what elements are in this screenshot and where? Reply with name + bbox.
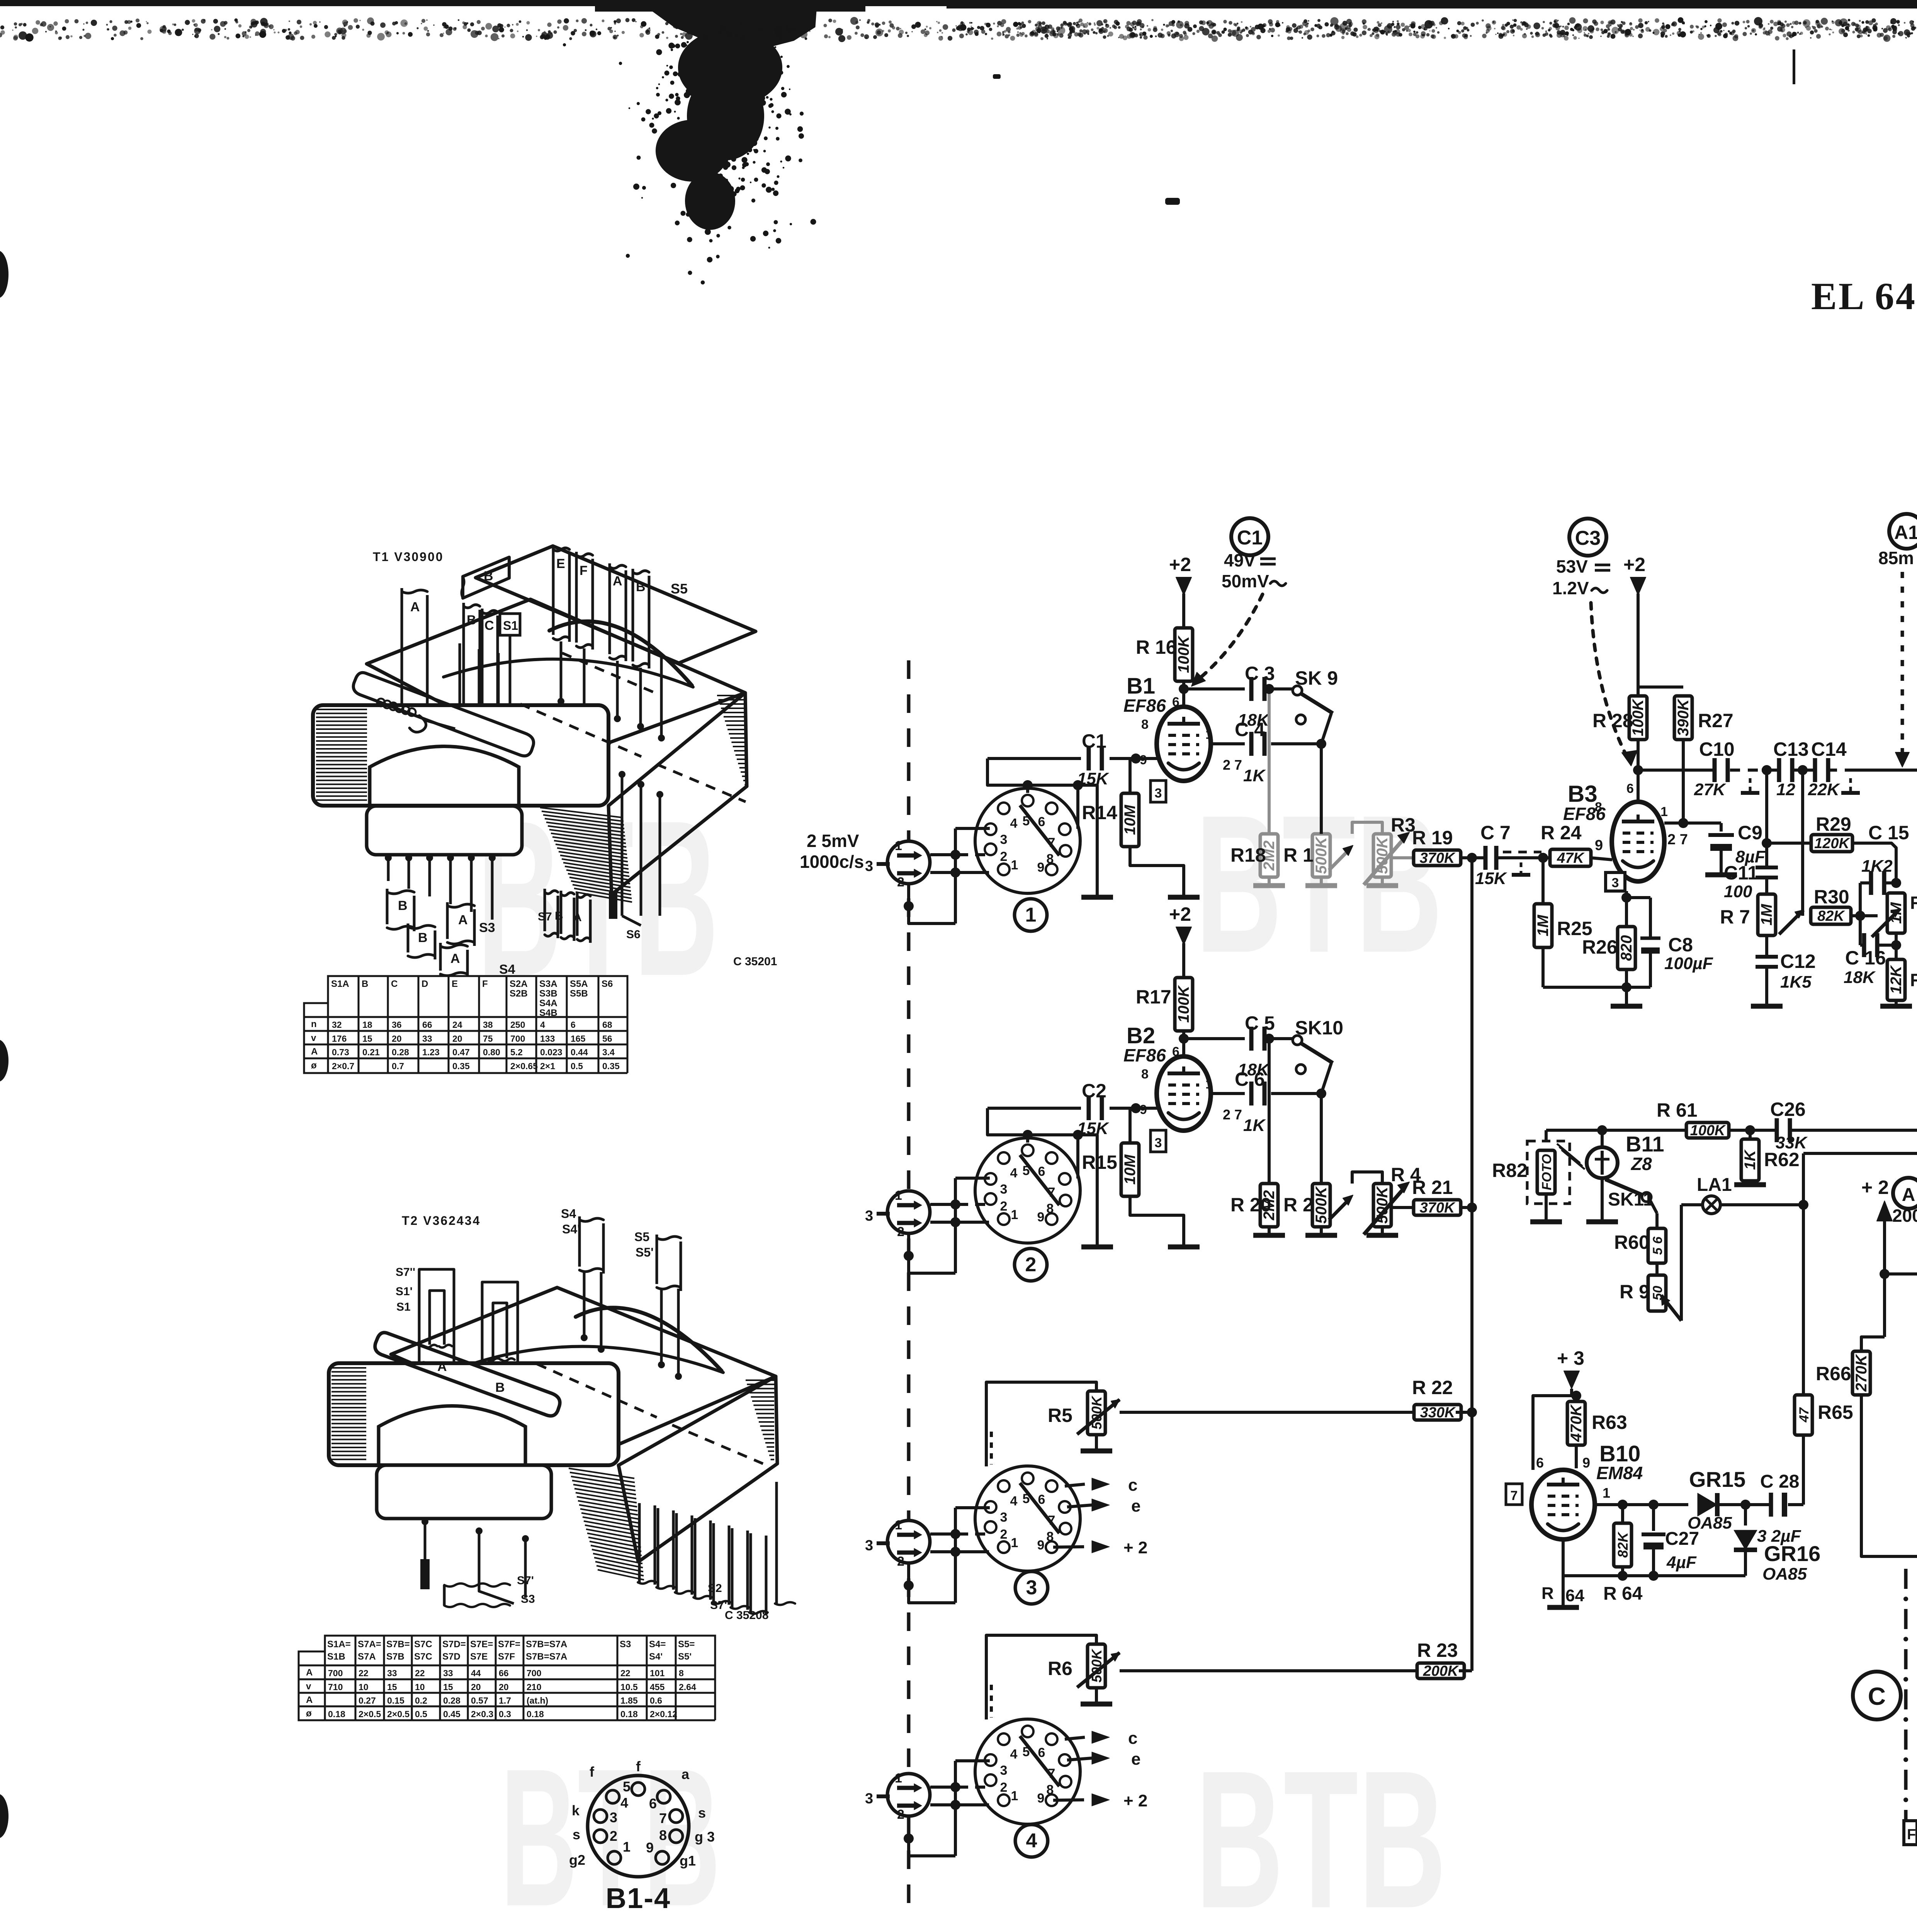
svg-text:S7D=: S7D= <box>442 1639 466 1650</box>
svg-text:2.64: 2.64 <box>679 1682 696 1692</box>
svg-text:2×0.7: 2×0.7 <box>332 1061 354 1071</box>
svg-text:R 61: R 61 <box>1657 1099 1698 1121</box>
svg-text:8: 8 <box>679 1668 684 1678</box>
svg-text:B2: B2 <box>1127 1023 1155 1048</box>
svg-text:6: 6 <box>1172 1044 1179 1059</box>
svg-text:R 19: R 19 <box>1412 827 1453 849</box>
svg-text:S3: S3 <box>620 1639 631 1650</box>
svg-text:1K: 1K <box>1243 1116 1266 1135</box>
svg-text:B: B <box>418 930 428 945</box>
svg-text:0.21: 0.21 <box>362 1047 380 1057</box>
svg-text:20: 20 <box>499 1682 509 1692</box>
svg-text:1: 1 <box>1205 1077 1213 1092</box>
svg-text:+2: +2 <box>1623 554 1645 575</box>
svg-text:22: 22 <box>415 1668 425 1678</box>
svg-text:270K: 270K <box>1853 1354 1870 1392</box>
svg-text:82K: 82K <box>1615 1531 1631 1558</box>
svg-text:100K: 100K <box>1175 985 1192 1023</box>
svg-text:C8: C8 <box>1668 934 1693 956</box>
svg-text:15K: 15K <box>1475 869 1507 888</box>
svg-text:A: A <box>613 574 622 588</box>
svg-text:C3: C3 <box>1575 527 1601 549</box>
svg-text:200: 200 <box>1892 1206 1917 1226</box>
svg-text:700: 700 <box>328 1668 343 1678</box>
svg-text:v: v <box>311 1033 316 1043</box>
svg-text:+2: +2 <box>1169 903 1191 925</box>
svg-text:250: 250 <box>510 1020 525 1030</box>
svg-text:66: 66 <box>499 1668 509 1678</box>
svg-text:3: 3 <box>1026 1577 1037 1599</box>
svg-text:R 7: R 7 <box>1720 906 1750 928</box>
svg-text:10: 10 <box>415 1682 425 1692</box>
svg-text:S5': S5' <box>636 1245 654 1259</box>
svg-text:C1: C1 <box>1237 527 1263 549</box>
svg-text:20: 20 <box>452 1034 462 1044</box>
svg-text:1K: 1K <box>1243 766 1266 785</box>
svg-text:0.35: 0.35 <box>602 1061 620 1071</box>
svg-text:D: D <box>421 979 428 989</box>
svg-text:A: A <box>410 600 420 614</box>
svg-text:0.28: 0.28 <box>392 1047 409 1057</box>
svg-text:ø: ø <box>306 1708 312 1719</box>
svg-text:S7B=S7A: S7B=S7A <box>526 1651 567 1662</box>
svg-text:3: 3 <box>610 1810 617 1825</box>
svg-text:B: B <box>467 613 476 628</box>
svg-text:49V: 49V <box>1224 550 1256 570</box>
svg-text:2: 2 <box>897 875 904 889</box>
svg-text:+2: +2 <box>1169 554 1191 575</box>
svg-text:S7: S7 <box>538 910 552 923</box>
svg-text:9: 9 <box>1140 753 1147 767</box>
svg-text:A: A <box>311 1046 318 1057</box>
svg-text:S7': S7' <box>517 1574 534 1587</box>
svg-text:S4': S4' <box>649 1651 663 1662</box>
svg-text:A: A <box>306 1667 313 1678</box>
svg-text:R27: R27 <box>1698 710 1733 731</box>
svg-text:7: 7 <box>1511 1488 1518 1503</box>
svg-text:SK11: SK11 <box>1608 1189 1653 1210</box>
svg-text:500K: 500K <box>1313 836 1330 874</box>
svg-text:f: f <box>590 1764 595 1780</box>
svg-text:2 7: 2 7 <box>1667 832 1688 848</box>
svg-text:A: A <box>437 1359 447 1374</box>
svg-text:33: 33 <box>443 1668 453 1678</box>
svg-text:R14: R14 <box>1082 802 1117 823</box>
svg-text:0.44: 0.44 <box>571 1047 588 1057</box>
svg-text:C: C <box>484 618 494 633</box>
svg-text:GR16: GR16 <box>1764 1541 1820 1566</box>
svg-text:R30: R30 <box>1814 886 1849 908</box>
svg-text:700: 700 <box>527 1668 541 1678</box>
svg-text:B: B <box>484 569 493 583</box>
svg-text:370K: 370K <box>1420 1200 1456 1216</box>
svg-text:3: 3 <box>1612 876 1619 890</box>
svg-text:S7B=: S7B= <box>386 1639 410 1650</box>
svg-text:S4=: S4= <box>649 1639 666 1650</box>
svg-text:3: 3 <box>1155 786 1162 801</box>
svg-text:0.80: 0.80 <box>483 1047 500 1057</box>
svg-text:15: 15 <box>387 1682 397 1692</box>
svg-text:R 1: R 1 <box>1283 844 1314 866</box>
svg-text:3: 3 <box>1000 1182 1008 1197</box>
svg-text:6: 6 <box>571 1020 576 1030</box>
svg-text:LA1: LA1 <box>1697 1175 1732 1195</box>
svg-text:S4': S4' <box>562 1222 580 1236</box>
svg-text:8: 8 <box>659 1827 667 1843</box>
svg-text:47K: 47K <box>1557 850 1585 866</box>
svg-text:R 9: R 9 <box>1620 1281 1650 1303</box>
svg-text:S7C: S7C <box>414 1639 432 1650</box>
svg-text:85m: 85m <box>1878 548 1914 568</box>
svg-text:A: A <box>1902 1185 1915 1205</box>
svg-text:A1: A1 <box>1894 522 1917 543</box>
svg-text:c: c <box>1128 1729 1137 1748</box>
svg-text:200K: 200K <box>1423 1663 1459 1679</box>
svg-text:Z8: Z8 <box>1630 1154 1652 1174</box>
svg-text:470K: 470K <box>1568 1404 1585 1442</box>
svg-text:4: 4 <box>620 1795 628 1811</box>
svg-text:1.2V: 1.2V <box>1552 578 1589 598</box>
svg-text:2×0.5: 2×0.5 <box>359 1709 381 1719</box>
svg-text:1: 1 <box>1603 1485 1610 1501</box>
svg-text:S3A: S3A <box>539 979 557 989</box>
svg-text:0.7: 0.7 <box>392 1061 404 1071</box>
svg-text:(at.h): (at.h) <box>527 1696 548 1706</box>
svg-text:A: A <box>573 911 582 924</box>
svg-text:2×0.12: 2×0.12 <box>650 1709 677 1719</box>
svg-text:s: s <box>698 1805 706 1821</box>
svg-text:9: 9 <box>1140 1102 1147 1117</box>
svg-text:22K: 22K <box>1808 780 1841 799</box>
svg-text:75: 75 <box>483 1034 493 1044</box>
svg-text:53V: 53V <box>1556 556 1588 577</box>
svg-text:22: 22 <box>359 1668 369 1678</box>
svg-text:C13: C13 <box>1773 738 1809 760</box>
svg-text:C 15: C 15 <box>1868 822 1909 844</box>
svg-text:E: E <box>556 556 565 571</box>
svg-text:C 3: C 3 <box>1245 663 1275 684</box>
svg-text:5 6: 5 6 <box>1650 1236 1665 1255</box>
svg-text:S7E: S7E <box>470 1651 488 1662</box>
svg-text:1.23: 1.23 <box>422 1047 440 1057</box>
svg-text:C 35208: C 35208 <box>725 1609 768 1622</box>
svg-text:S1B: S1B <box>327 1651 345 1662</box>
svg-text:100K: 100K <box>1175 635 1192 673</box>
svg-text:1K: 1K <box>1742 1149 1759 1170</box>
svg-text:4: 4 <box>1010 816 1018 831</box>
svg-text:455: 455 <box>650 1682 665 1692</box>
svg-text:15: 15 <box>362 1034 372 1044</box>
svg-text:B: B <box>555 910 563 922</box>
svg-text:5.2: 5.2 <box>510 1047 523 1057</box>
svg-text:0.28: 0.28 <box>443 1696 461 1706</box>
svg-text:0.18: 0.18 <box>527 1709 544 1719</box>
svg-text:F: F <box>482 979 488 989</box>
svg-text:47: 47 <box>1797 1407 1812 1423</box>
svg-text:R 22: R 22 <box>1412 1377 1453 1398</box>
svg-text:C: C <box>391 979 398 989</box>
svg-text:C 5: C 5 <box>1245 1012 1275 1034</box>
svg-text:+ 3: + 3 <box>1557 1347 1584 1369</box>
svg-text:210: 210 <box>527 1682 541 1692</box>
svg-text:R60: R60 <box>1614 1231 1650 1253</box>
svg-text:R29: R29 <box>1816 813 1851 835</box>
svg-text:2: 2 <box>897 1225 904 1239</box>
svg-text:g1: g1 <box>680 1853 696 1869</box>
svg-text:B: B <box>495 1380 505 1395</box>
svg-text:4: 4 <box>1010 1166 1018 1180</box>
svg-text:820: 820 <box>1618 935 1635 961</box>
svg-text:20: 20 <box>392 1034 402 1044</box>
svg-text:5: 5 <box>623 1779 631 1794</box>
svg-text:C 7: C 7 <box>1480 822 1511 844</box>
svg-text:8: 8 <box>1141 1067 1149 1082</box>
svg-text:2 7: 2 7 <box>1223 1107 1242 1122</box>
svg-text:6: 6 <box>1172 695 1179 709</box>
svg-text:S1A: S1A <box>331 979 349 989</box>
svg-text:133: 133 <box>540 1034 555 1044</box>
svg-text:9: 9 <box>1582 1455 1590 1471</box>
svg-text:27K: 27K <box>1694 780 1727 799</box>
svg-text:S1: S1 <box>503 619 518 633</box>
svg-text:C 4: C 4 <box>1235 719 1265 740</box>
svg-text:82K: 82K <box>1817 908 1845 924</box>
svg-text:3.4: 3.4 <box>602 1047 615 1057</box>
svg-text:101: 101 <box>650 1668 665 1678</box>
svg-text:FOTO: FOTO <box>1540 1154 1554 1190</box>
svg-text:38: 38 <box>483 1020 493 1030</box>
svg-text:T2 V362434: T2 V362434 <box>402 1214 481 1228</box>
svg-text:22: 22 <box>620 1668 631 1678</box>
svg-text:R18: R18 <box>1230 844 1266 866</box>
svg-text:0.3: 0.3 <box>499 1709 511 1719</box>
svg-text:B: B <box>398 898 408 913</box>
svg-text:9: 9 <box>1037 860 1045 875</box>
svg-text:a: a <box>681 1766 690 1782</box>
svg-text:1: 1 <box>895 838 902 853</box>
svg-text:1M: 1M <box>1535 914 1552 936</box>
svg-text:710: 710 <box>328 1682 343 1692</box>
svg-text:15K: 15K <box>1077 1119 1110 1138</box>
svg-text:S1A=: S1A= <box>327 1639 351 1650</box>
svg-text:3: 3 <box>865 1791 873 1807</box>
svg-text:6: 6 <box>1626 781 1634 796</box>
svg-text:R 23: R 23 <box>1417 1639 1458 1661</box>
svg-text:3: 3 <box>1000 1510 1008 1525</box>
svg-text:B1: B1 <box>1127 673 1155 699</box>
svg-text:2 5mV: 2 5mV <box>807 831 859 851</box>
svg-text:500K: 500K <box>1313 1185 1330 1224</box>
svg-text:S7A: S7A <box>358 1651 376 1662</box>
svg-text:33: 33 <box>422 1034 432 1044</box>
svg-text:R62: R62 <box>1764 1149 1800 1170</box>
svg-text:R66: R66 <box>1816 1363 1851 1384</box>
svg-text:32: 32 <box>332 1020 342 1030</box>
svg-text:15K: 15K <box>1077 769 1110 788</box>
svg-text:8: 8 <box>1047 1201 1054 1216</box>
svg-text:1: 1 <box>1011 1536 1018 1550</box>
svg-text:S7A=: S7A= <box>358 1639 381 1650</box>
svg-text:3: 3 <box>1000 1763 1008 1778</box>
svg-text:2: 2 <box>1000 1199 1008 1214</box>
svg-text:S7C: S7C <box>414 1651 432 1662</box>
svg-text:3: 3 <box>865 1537 873 1554</box>
svg-text:8: 8 <box>1141 717 1149 732</box>
svg-text:2×0.65: 2×0.65 <box>510 1061 538 1071</box>
svg-text:R17: R17 <box>1136 986 1171 1008</box>
svg-text:8: 8 <box>1047 1782 1054 1797</box>
svg-text:EL 64: EL 64 <box>1811 275 1917 318</box>
svg-text:0.2: 0.2 <box>415 1696 427 1706</box>
svg-text:+ 2: + 2 <box>1123 1538 1147 1557</box>
svg-text:2: 2 <box>1000 1527 1008 1542</box>
svg-text:A: A <box>458 913 468 927</box>
svg-text:S5: S5 <box>671 581 688 597</box>
svg-text:6: 6 <box>1536 1455 1544 1471</box>
svg-text:68: 68 <box>602 1020 612 1030</box>
svg-text:B1-4: B1-4 <box>606 1882 671 1914</box>
svg-text:C27: C27 <box>1665 1529 1699 1549</box>
svg-text:44: 44 <box>471 1668 481 1678</box>
svg-text:33: 33 <box>387 1668 397 1678</box>
svg-text:0.18: 0.18 <box>620 1709 638 1719</box>
svg-text:1: 1 <box>1025 904 1037 926</box>
svg-text:R63: R63 <box>1592 1412 1627 1433</box>
svg-text:3: 3 <box>1155 1136 1162 1150</box>
svg-text:9: 9 <box>646 1840 654 1855</box>
svg-text:e: e <box>1131 1750 1140 1769</box>
svg-text:9: 9 <box>1595 837 1603 854</box>
svg-text:10: 10 <box>359 1682 369 1692</box>
svg-text:F: F <box>1907 1827 1916 1843</box>
svg-text:0.57: 0.57 <box>471 1696 488 1706</box>
svg-text:S4: S4 <box>561 1207 576 1221</box>
svg-text:0.73: 0.73 <box>332 1047 349 1057</box>
svg-text:k: k <box>572 1803 580 1818</box>
svg-text:0.18: 0.18 <box>328 1709 345 1719</box>
svg-text:2×1: 2×1 <box>540 1061 555 1071</box>
svg-text:10M: 10M <box>1122 1154 1139 1184</box>
svg-text:S7B=S7A: S7B=S7A <box>526 1639 567 1650</box>
svg-text:20: 20 <box>471 1682 481 1692</box>
svg-text:4: 4 <box>1026 1830 1037 1852</box>
svg-text:n: n <box>311 1019 317 1029</box>
svg-text:B11: B11 <box>1626 1132 1664 1156</box>
svg-text:2×0.5: 2×0.5 <box>387 1709 410 1719</box>
svg-text:2: 2 <box>610 1828 617 1844</box>
svg-text:7: 7 <box>659 1810 667 1826</box>
svg-text:R: R <box>1541 1584 1554 1603</box>
svg-text:1: 1 <box>1660 804 1668 819</box>
svg-text:15: 15 <box>443 1682 453 1692</box>
svg-text:C10: C10 <box>1699 738 1735 760</box>
svg-text:R82: R82 <box>1492 1160 1528 1181</box>
svg-text:R6: R6 <box>1048 1658 1072 1679</box>
svg-text:390K: 390K <box>1675 698 1692 736</box>
svg-text:SK 9: SK 9 <box>1295 667 1338 689</box>
svg-text:165: 165 <box>571 1034 586 1044</box>
svg-text:2: 2 <box>897 1807 904 1822</box>
svg-text:S2: S2 <box>708 1582 722 1595</box>
svg-text:B: B <box>362 979 368 989</box>
svg-text:S3: S3 <box>479 920 495 935</box>
svg-text:S7E=: S7E= <box>470 1639 493 1650</box>
svg-text:4: 4 <box>1010 1747 1018 1762</box>
svg-text:R 24: R 24 <box>1541 822 1582 844</box>
svg-text:4: 4 <box>1010 1494 1018 1509</box>
svg-text:F: F <box>580 563 588 578</box>
svg-text:1: 1 <box>1011 1789 1018 1803</box>
svg-text:3: 3 <box>1000 832 1008 847</box>
svg-text:B: B <box>636 580 646 594</box>
svg-text:64: 64 <box>1565 1586 1584 1605</box>
svg-text:700: 700 <box>510 1034 525 1044</box>
svg-text:EF86: EF86 <box>1123 696 1166 716</box>
svg-text:2: 2 <box>1025 1253 1037 1276</box>
svg-text:s: s <box>573 1827 580 1842</box>
svg-text:S7'': S7'' <box>396 1266 415 1279</box>
svg-text:B3: B3 <box>1568 781 1597 807</box>
svg-text:R 2: R 2 <box>1283 1194 1314 1216</box>
svg-text:g 3: g 3 <box>695 1829 715 1845</box>
svg-text:C1: C1 <box>1082 730 1106 752</box>
svg-text:2: 2 <box>1000 849 1008 864</box>
svg-text:R15: R15 <box>1082 1151 1117 1173</box>
svg-text:1: 1 <box>1205 727 1213 742</box>
svg-text:50mV: 50mV <box>1222 571 1269 591</box>
svg-text:66: 66 <box>422 1020 432 1030</box>
svg-text:36: 36 <box>392 1020 402 1030</box>
svg-text:100µF: 100µF <box>1664 954 1713 973</box>
svg-text:1.7: 1.7 <box>499 1696 511 1706</box>
svg-text:1: 1 <box>895 1518 902 1532</box>
svg-text:R 16: R 16 <box>1136 636 1177 658</box>
svg-text:1M: 1M <box>1758 903 1775 925</box>
svg-text:S1: S1 <box>396 1301 411 1313</box>
svg-text:8: 8 <box>1595 800 1602 815</box>
svg-text:0.15: 0.15 <box>387 1696 404 1706</box>
svg-text:100K: 100K <box>1690 1122 1726 1139</box>
svg-text:C 6: C 6 <box>1235 1068 1265 1090</box>
svg-text:370K: 370K <box>1420 850 1456 866</box>
svg-text:4µF: 4µF <box>1666 1553 1697 1572</box>
svg-text:S2A: S2A <box>510 979 528 989</box>
svg-text:2: 2 <box>1000 1780 1008 1795</box>
svg-text:9: 9 <box>1037 1791 1045 1806</box>
svg-text:S7B: S7B <box>386 1651 404 1662</box>
svg-text:10.5: 10.5 <box>620 1682 638 1692</box>
svg-text:SK10: SK10 <box>1295 1017 1343 1039</box>
svg-text:A: A <box>450 951 460 966</box>
svg-text:S6: S6 <box>602 979 613 989</box>
svg-text:R 64: R 64 <box>1603 1583 1643 1604</box>
svg-text:12: 12 <box>1776 780 1795 799</box>
svg-text:S6: S6 <box>626 928 641 941</box>
svg-text:v: v <box>306 1681 311 1692</box>
svg-text:S3: S3 <box>521 1593 535 1605</box>
svg-text:1: 1 <box>1011 1207 1018 1222</box>
svg-text:E: E <box>452 979 458 989</box>
svg-text:0.47: 0.47 <box>452 1047 470 1057</box>
svg-text:3: 3 <box>865 1208 873 1224</box>
svg-text:R 20: R 20 <box>1230 1194 1271 1216</box>
svg-text:4: 4 <box>540 1020 545 1030</box>
svg-text:C 35201: C 35201 <box>733 955 777 968</box>
svg-text:S5: S5 <box>634 1230 649 1244</box>
svg-text:C 28: C 28 <box>1760 1471 1799 1492</box>
svg-text:c: c <box>1128 1476 1137 1495</box>
svg-text:1: 1 <box>895 1771 902 1786</box>
